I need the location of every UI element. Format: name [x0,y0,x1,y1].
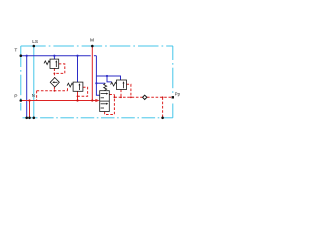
svg-text:T: T [14,48,17,54]
svg-text:Pp: Pp [175,91,181,96]
svg-text:N: N [32,93,35,98]
svg-text:M: M [90,38,94,44]
svg-text:LS: LS [32,39,38,45]
svg-text:P: P [14,94,17,100]
